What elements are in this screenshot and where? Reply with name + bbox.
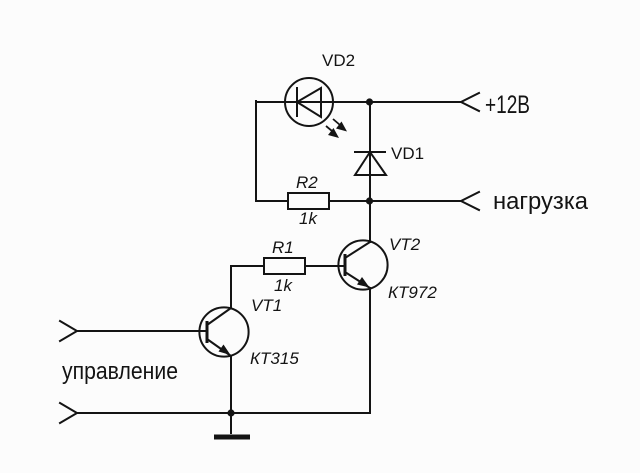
transistor VT1 <box>199 307 248 356</box>
node: emitter/ground junction <box>227 409 234 416</box>
wire: VT1 base from control terminal <box>77 330 207 332</box>
wire: R1 right lead to VT2 base <box>305 265 345 267</box>
wire: VD1 branch vertical <box>369 102 371 242</box>
wire: R2 left lead <box>256 200 288 202</box>
svg-text:VD1: VD1 <box>391 144 424 163</box>
node: load junction <box>366 197 373 204</box>
wire: left vertical from LED to R2 <box>255 101 257 201</box>
diode VD1 <box>354 152 386 175</box>
wire: R1 left lead <box>231 265 264 267</box>
svg-text:R1: R1 <box>272 238 294 257</box>
svg-text:1k: 1k <box>274 276 293 295</box>
terminal: +12V input chevron <box>461 93 479 111</box>
wire: VT2 emitter vertical <box>369 288 371 413</box>
svg-text:R2: R2 <box>296 173 318 192</box>
terminal: control input lower chevron <box>60 403 77 423</box>
resistor R2 <box>288 193 329 209</box>
wire: VT1 collector vertical <box>230 266 232 308</box>
ground <box>214 413 250 437</box>
svg-text:управление: управление <box>62 358 178 385</box>
terminal: control input upper chevron <box>60 321 77 341</box>
LED VD2 <box>285 78 347 138</box>
node: +12V junction <box>366 98 373 105</box>
wire: bottom rail <box>77 412 370 414</box>
svg-text:VD2: VD2 <box>322 51 355 70</box>
svg-text:+12В: +12В <box>485 91 530 119</box>
svg-text:КТ972: КТ972 <box>388 283 437 302</box>
wire: R2 right lead to load terminal <box>329 200 461 202</box>
wire: VT1 emitter vertical <box>230 356 232 413</box>
svg-text:VT1: VT1 <box>251 296 282 315</box>
svg-text:КТ315: КТ315 <box>250 349 299 368</box>
resistor R1 <box>264 258 305 274</box>
wire: LED left lead <box>256 101 285 103</box>
wire: +12V rail from LED to terminal <box>333 101 461 103</box>
svg-text:VT2: VT2 <box>389 235 421 254</box>
terminal: load chevron <box>461 192 479 210</box>
svg-text:нагрузка: нагрузка <box>493 188 589 215</box>
svg-text:1k: 1k <box>299 209 318 228</box>
transistor VT2 <box>338 240 387 289</box>
